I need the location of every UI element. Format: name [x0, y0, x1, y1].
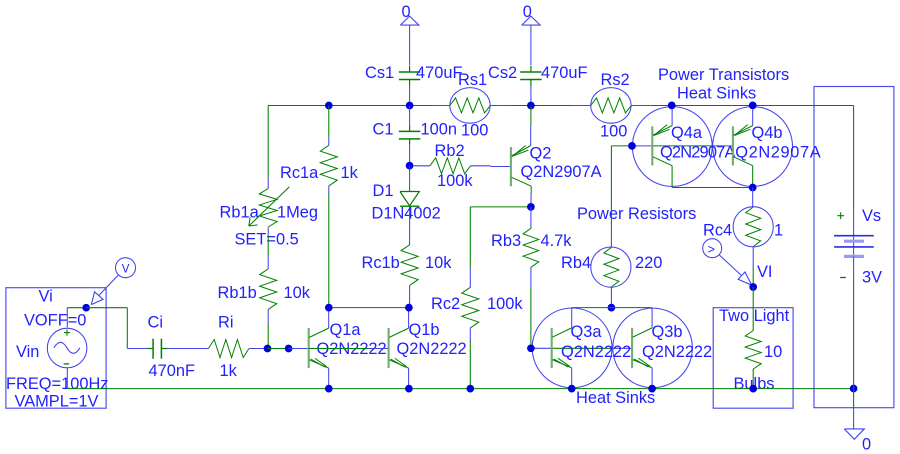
wire bottom rail (ground return y=388.6) — [67, 388, 853, 390]
label Q2N2222 (Q1a) — [317, 340, 387, 358]
capacitor Cs2 470uF — [488, 64, 587, 106]
svg-text:SET=0.5: SET=0.5 — [235, 231, 299, 249]
svg-text:Q4b: Q4b — [752, 124, 783, 142]
svg-text:C1: C1 — [373, 121, 394, 139]
resistor Rc4 1 — [703, 188, 783, 288]
node dot Q4a base pin — [628, 142, 636, 150]
node dot Q1a emitter — [325, 385, 333, 393]
svg-text:100: 100 — [600, 123, 627, 141]
svg-text:220: 220 — [635, 254, 662, 272]
resistor Rb1b 10k — [218, 235, 311, 349]
transistor Q3b Q2N2222 (NPN) — [632, 308, 652, 389]
svg-text:VI: VI — [757, 263, 773, 281]
transistor Q1b Q2N2222 (NPN) — [369, 308, 409, 389]
svg-text:0: 0 — [402, 3, 411, 21]
box Vs battery — [814, 87, 894, 408]
svg-text:Q2: Q2 — [530, 145, 552, 163]
label Power Transistors — [658, 66, 789, 84]
wire Q4 collectors — [672, 187, 753, 189]
svg-text:Heat Sinks: Heat Sinks — [576, 389, 655, 407]
ground 0 (top, node Cs2) — [522, 3, 541, 66]
wire Vi node to Ci — [86, 308, 127, 349]
wire Q4 base rail — [611, 145, 733, 147]
resistor Rb3 4.7k — [491, 207, 572, 348]
label Q3b — [652, 323, 683, 341]
ground 0 (top, node Cs1) — [400, 3, 419, 66]
svg-text:Rc1b: Rc1b — [362, 254, 400, 272]
resistor 10 (light bulbs) — [745, 287, 782, 389]
svg-text:470uF: 470uF — [541, 64, 587, 82]
node dot Cs1/C1/top-rail — [406, 102, 414, 110]
svg-text:Rb4: Rb4 — [561, 254, 591, 272]
label Q2N2222 (Q3a) — [561, 343, 631, 361]
label Vin — [16, 343, 39, 361]
wire base node to Q1a pin — [268, 348, 289, 350]
resistor Rc2 100k — [431, 268, 523, 389]
svg-text:VAMPL=1V: VAMPL=1V — [15, 393, 99, 411]
ground 0 (bottom right) — [844, 389, 871, 454]
svg-text:1k: 1k — [220, 362, 238, 380]
svg-text:Cs1: Cs1 — [365, 64, 394, 82]
svg-text:3V: 3V — [862, 269, 882, 287]
node dot Q4 collector node — [749, 184, 757, 192]
box Vin source — [6, 288, 106, 409]
svg-text:0: 0 — [862, 436, 871, 454]
node dot Q3b emitter — [648, 385, 656, 393]
node dot C1/Rb2/D1 — [406, 162, 414, 170]
svg-text:100k: 100k — [437, 172, 473, 190]
node dot Q4b emitter/top-rail — [749, 102, 757, 110]
resistor Rs2 100 — [571, 71, 651, 141]
label Power Resistors — [577, 205, 696, 223]
wire Q2-collector-node to Q3 bases — [531, 347, 632, 349]
transistor Q4a Q2N2907A (PNP) — [652, 106, 672, 188]
node dot battery bottom — [850, 385, 858, 393]
label Vi — [39, 287, 53, 305]
label Vs — [862, 207, 881, 225]
resistor Rc1a 1k — [280, 106, 359, 308]
svg-text:Q1b: Q1b — [409, 321, 440, 339]
transistor Q3a Q2N2222 (NPN) — [552, 308, 572, 389]
probe > (current/voltage marker at VI) — [703, 239, 752, 286]
svg-text:100n: 100n — [421, 121, 457, 139]
label Q2N2907A (Q4a) — [660, 144, 735, 162]
label Q2N2907A (Q2) — [521, 163, 602, 181]
svg-text:0: 0 — [523, 3, 532, 21]
svg-text:Rc2: Rc2 — [431, 295, 460, 313]
svg-text:1: 1 — [774, 222, 783, 240]
svg-text:Q2N2222: Q2N2222 — [397, 340, 467, 358]
svg-text:Q3a: Q3a — [571, 323, 603, 341]
resistor Rc1b 10k — [362, 209, 453, 308]
wire Q1a base bar to Q1b base pin — [309, 348, 369, 350]
label 3V — [862, 269, 882, 287]
resistor Rs1 100 — [430, 71, 510, 140]
svg-text:10k: 10k — [425, 254, 452, 272]
label Heat Sinks (bottom) — [576, 389, 655, 407]
label FREQ=100Hz — [6, 375, 108, 393]
label Heat Sinks (top) — [677, 85, 756, 103]
svg-text:Rs1: Rs1 — [458, 71, 487, 89]
node dot Ri/Rb1b/base-wire — [264, 345, 272, 353]
label Q1a — [330, 321, 362, 339]
svg-text:Ri: Ri — [218, 314, 233, 332]
svg-text:10k: 10k — [284, 284, 311, 302]
label VOFF=0 — [24, 311, 86, 329]
svg-text:Vin: Vin — [16, 343, 39, 361]
svg-text:Q2N2907A: Q2N2907A — [521, 163, 602, 181]
label Two Light — [719, 307, 790, 325]
svg-text:Q3b: Q3b — [652, 323, 683, 341]
svg-text:1Meg: 1Meg — [277, 204, 318, 222]
node dot Rb4/Q3-collector rail — [608, 304, 616, 312]
label Q2 — [530, 145, 552, 163]
svg-text:>: > — [708, 243, 715, 257]
transistor Q1a Q2N2222 (NPN) — [289, 308, 329, 389]
node dot Q1b collector — [405, 304, 413, 312]
svg-text:Q1a: Q1a — [330, 321, 362, 339]
svg-text:Power Transistors: Power Transistors — [658, 66, 789, 84]
wire Q3 collectors — [572, 307, 652, 309]
transistor Q4b Q2N2907A (PNP) — [733, 106, 753, 188]
svg-text:VOFF=0: VOFF=0 — [24, 311, 86, 329]
svg-text:Power Resistors: Power Resistors — [577, 205, 696, 223]
label VI — [757, 263, 773, 281]
label Q4a — [671, 124, 703, 142]
transistor Q2 Q2N2907A (PNP) — [491, 106, 531, 207]
probe V (voltage marker at Vi) — [91, 258, 135, 305]
label Q2N2222 (Q3b) — [642, 343, 712, 361]
label Q1b — [409, 321, 440, 339]
svg-text:Q2N2222: Q2N2222 — [561, 343, 631, 361]
label Q4b — [752, 124, 783, 142]
svg-text:Q4a: Q4a — [671, 124, 703, 142]
node dot Q3a emitter — [568, 385, 576, 393]
svg-text:Heat Sinks: Heat Sinks — [677, 85, 756, 103]
svg-text:Ci: Ci — [148, 314, 163, 332]
svg-text:Q2N2222: Q2N2222 — [642, 343, 712, 361]
capacitor Cs1 470uF — [365, 64, 462, 106]
source Vin (VSIN) — [47, 308, 87, 389]
label Q2N2907A (Q4b) — [735, 144, 821, 162]
label Q2N2222 (Q1b) — [397, 340, 467, 358]
svg-text:D1: D1 — [373, 182, 394, 200]
node dot Q4a emitter/top-rail — [668, 102, 676, 110]
diode D1 D1N4002 — [372, 166, 441, 223]
node dot Rc1a/top-rail — [325, 102, 333, 110]
svg-text:Q2N2907A: Q2N2907A — [735, 144, 821, 162]
svg-text:10: 10 — [764, 343, 782, 361]
label Bulbs — [734, 375, 775, 393]
svg-text:Rb3: Rb3 — [491, 232, 521, 250]
node dot Cs2/Q2-emitter/top-rail — [527, 102, 535, 110]
svg-text:Two Light: Two Light — [719, 307, 790, 325]
svg-text:470uF: 470uF — [416, 64, 462, 82]
capacitor Ci 470nF — [127, 314, 195, 381]
battery Vs 3V — [834, 206, 874, 389]
svg-text:100k: 100k — [487, 295, 523, 313]
resistor Rb4 220 — [561, 146, 662, 307]
svg-text:Vs: Vs — [862, 207, 881, 225]
heat sink circle Q4b — [713, 107, 793, 187]
svg-text:D1N4002: D1N4002 — [372, 205, 441, 223]
svg-text:Rs2: Rs2 — [601, 71, 630, 89]
wire top rail (+V rail y=105.5) — [268, 106, 853, 206]
svg-text:Rc1a: Rc1a — [280, 164, 319, 182]
heat sink circle Q3a — [532, 308, 612, 388]
resistor Rb2 100k — [413, 142, 491, 190]
node dot Vi — [82, 304, 90, 312]
svg-text:4.7k: 4.7k — [541, 232, 573, 250]
svg-text:Rb2: Rb2 — [435, 142, 465, 160]
node dot Q1a collector — [325, 304, 333, 312]
svg-text:Rb1a: Rb1a — [220, 204, 260, 222]
node dot VI — [749, 283, 757, 291]
svg-text:Q2N2907A: Q2N2907A — [660, 144, 735, 162]
node dot Q1a base pin — [285, 345, 293, 353]
svg-text:470nF: 470nF — [149, 362, 195, 380]
wire Q1 collectors — [329, 307, 410, 309]
heat sink circle Q3b — [613, 308, 693, 388]
svg-text:Rc4: Rc4 — [703, 222, 732, 240]
node dot Rc2 bottom — [466, 385, 474, 393]
potentiometer Rb1a 1Meg SET=0.5 — [220, 178, 319, 236]
heat sink circle Q4a — [632, 107, 712, 187]
node dot bulbs bottom — [749, 385, 757, 393]
svg-text:100: 100 — [461, 122, 488, 140]
capacitor C1 100n — [373, 106, 457, 166]
svg-text:V: V — [122, 263, 130, 275]
label Q3a — [571, 323, 603, 341]
node dot Q3 base rail — [527, 344, 535, 352]
resistor Ri 1k — [188, 314, 268, 381]
svg-text:Vi: Vi — [39, 287, 53, 305]
label VAMPL=1V — [15, 393, 99, 411]
wire Q2 collector to Rc2 corner — [470, 207, 531, 268]
label SET=0.5 — [235, 231, 299, 249]
svg-text:1k: 1k — [341, 164, 359, 182]
wire +rail to Rb1a — [267, 106, 269, 178]
svg-text:Cs2: Cs2 — [488, 64, 517, 82]
svg-text:FREQ=100Hz: FREQ=100Hz — [6, 375, 108, 393]
svg-text:Rb1b: Rb1b — [218, 284, 257, 302]
node dot Q2 collector / Rb3 — [527, 203, 535, 211]
box Two Light Bulbs — [713, 308, 793, 409]
node dot Q1b emitter — [405, 385, 413, 393]
